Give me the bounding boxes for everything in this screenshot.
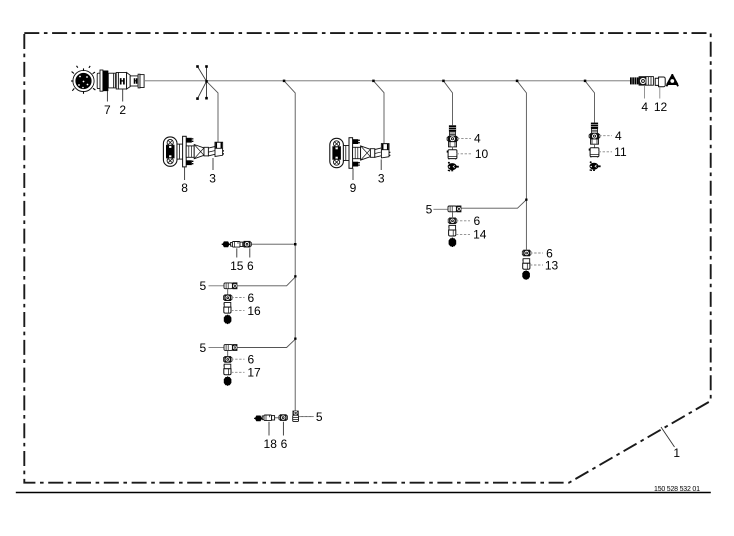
end nut 4 with eye [639,76,654,85]
stub wire [227,289,229,295]
fitting 15 [231,242,243,248]
connector 8 assembly [163,136,224,167]
leader for label 12 [659,87,661,99]
connector 7 body (black gland) [97,70,115,91]
coupling 12 [655,77,665,87]
svg-text:6: 6 [248,353,255,367]
svg-text:3: 3 [209,172,216,186]
wire branch to connector 3b [373,81,384,143]
connector 7 round multipin face [71,66,95,94]
nut 6 (grp14) [448,218,457,225]
leader for label 17 [231,371,244,373]
nut 6 (grp15) [243,241,252,248]
hex plug (grp17) [224,376,232,385]
svg-text:16: 16 [247,304,261,318]
end fitting: ribbed stud horizontal [630,77,639,84]
hex plug (grp13) [522,270,530,279]
stub wire [452,212,454,217]
leader for label 3b [380,159,382,170]
plug stack 4 (branch 10) [447,125,458,147]
leader for label 2 [122,89,124,101]
nut 6 (bottom) [279,414,288,421]
clip under 10 [448,162,459,172]
leader for label 6 (grp16) [231,297,244,299]
wire bottom group 5 stub [299,416,314,418]
svg-text:12: 12 [654,100,668,114]
wire group14 to trunk B [461,200,526,209]
leader for label 4 (end) [644,86,646,99]
svg-text:15: 15 [230,259,244,273]
title baseline rule [16,492,711,494]
svg-text:5: 5 [199,341,206,355]
wire group17 to trunk A [238,339,297,348]
warning clip symbol at end [666,74,678,86]
leader for label 7 [106,91,108,102]
svg-text:6: 6 [247,259,254,273]
wire stub [452,147,454,150]
nut 6 (grp17) [223,356,232,363]
coupling 16 [224,303,231,314]
wire branch to stack 4/11 [585,81,595,123]
hex plug (grp14) [449,238,457,247]
group 5/6/16: elbow 5 [224,282,237,289]
coupling 10 [447,150,457,160]
leader for label 5 (grp14) [433,208,447,210]
fitting 18 [262,415,274,421]
leader for label 5 (grp17) [209,347,224,349]
leader for label 3a [212,158,214,170]
svg-text:4: 4 [641,100,648,114]
wire branch trunk A (x=295) [284,81,295,411]
svg-text:11: 11 [614,145,627,159]
cut symbol on main wire [196,65,208,100]
wire group16 to trunk A [238,276,297,286]
leader for label 6 (grp13) [530,252,543,254]
svg-text:5: 5 [426,203,433,217]
leader to label 1 [661,427,675,447]
svg-text:6: 6 [473,214,480,228]
leader for label 18 [268,422,270,436]
wire stub [594,144,596,148]
svg-text:13: 13 [545,258,559,272]
group 5/6/14: elbow 5 [448,206,461,213]
wire branch to connector 3a [207,81,219,142]
group 5/6/17: elbow 5 [224,344,237,351]
svg-text:150 528 532 01: 150 528 532 01 [654,486,700,493]
border frame dash-dot with cut corner [24,33,710,483]
svg-text:5: 5 [199,279,206,293]
svg-text:7: 7 [104,103,111,117]
plug stack 4 (branch 11) [589,123,600,145]
svg-text:4: 4 [615,129,622,143]
svg-text:6: 6 [281,437,288,451]
svg-text:1: 1 [673,446,680,460]
coupling 14 [448,225,455,236]
leader for label 6 (grp17) [231,358,244,360]
svg-text:4: 4 [474,132,481,146]
clip under 11 [589,161,600,171]
group 6/13: nut 6 [522,250,531,257]
svg-text:17: 17 [247,366,261,380]
coupling 11 [589,148,599,158]
leader for label 5 (grp16) [209,285,224,287]
leader for label 9 [352,168,354,180]
coupling 13 [523,259,530,270]
stub wire [227,350,229,356]
leader for label 16 [231,310,244,312]
wire main harness [145,80,630,82]
bottom group: elbow 5 on trunk (vertical) [293,411,299,422]
leader for label 8 [184,167,186,180]
wire between [275,417,280,419]
svg-text:9: 9 [350,181,357,195]
hex plug (grp18) [254,416,263,422]
svg-text:18: 18 [264,437,278,451]
wire branch to stack 4/10 [443,81,452,126]
svg-text:2: 2 [119,103,126,117]
leader for label 11 [599,151,612,153]
connector 9 assembly [330,138,391,169]
svg-text:10: 10 [475,147,489,161]
svg-text:6: 6 [248,291,255,305]
leader for label 6 (grp15) [249,248,251,257]
svg-text:5: 5 [316,410,323,424]
group 15/6: hex plug [222,241,231,247]
svg-text:14: 14 [473,228,487,242]
leader for label 13 [530,264,543,266]
coupling 17 [224,364,231,375]
leader for label 6 (bottom) [282,422,284,436]
leader for label 14 [456,233,470,235]
hex plug (grp16) [224,315,232,324]
wire group15 to trunk A [251,243,295,245]
connector 2 plug body [116,73,144,90]
leader for label 6 (grp14) [456,220,470,222]
nut 6 (grp16) [223,294,232,301]
svg-text:8: 8 [181,181,188,195]
leader for label 10 [457,153,471,155]
leader for label 4 (col11) [599,135,612,137]
leader for label 4 (col10) [457,137,471,139]
wire branch trunk B (x=526) [517,81,526,250]
svg-text:3: 3 [378,172,385,186]
leader for label 5 (bottom) [299,416,313,418]
leader for label 15 [236,248,238,257]
